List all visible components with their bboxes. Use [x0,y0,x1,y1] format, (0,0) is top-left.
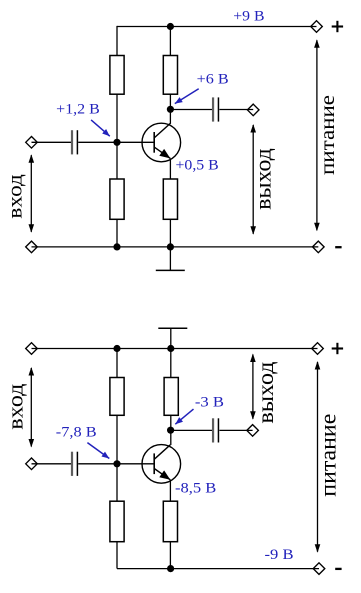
capacitor C2 (output coupling, top circuit) [213,97,218,121]
wire top +9V rail (top circuit) [117,26,317,28]
dimension arrow выход (bottom circuit) [250,354,256,420]
wire base node to R6 [116,464,118,501]
svg-text:вход: вход [2,174,26,219]
terminal top-left (diamond, bottom circuit) [26,343,38,355]
label + (supply polarity, top circuit) [332,21,343,32]
node base divider junction (bottom circuit) [113,460,120,467]
pointer arrow -3 В to collector node (bottom circuit) [175,409,193,424]
wire bottom 0V rail (top circuit) [32,246,319,248]
capacitor C4 (output coupling, bottom circuit) [213,418,218,442]
dimension arrow вход (bottom circuit) [29,367,35,448]
wire left bias column (rail to R5) [116,349,118,378]
terminal input (diamond, top circuit) [26,137,38,149]
wire emitter to R4 [169,158,171,179]
dimension arrow питание (bottom circuit) [315,361,321,553]
pointer arrow +1,2 В to base node [91,120,110,136]
svg-text:питание: питание [316,414,342,497]
wire R7 to collector (bottom circuit) [170,415,172,445]
wire emitter to R8 (bottom circuit) [169,480,171,501]
wire collector resistor column (rail to R3) [169,27,171,56]
label + (supply polarity, bottom circuit) [332,343,343,354]
transistor Q1 (NPN common-emitter) [142,123,181,162]
node base divider junction (top circuit) [113,139,120,146]
wire R8 to bottom rail (bottom circuit) [169,542,171,569]
svg-text:+9 В: +9 В [233,9,264,25]
svg-text:выход: выход [253,361,278,423]
terminal output (diamond, top circuit) [247,104,259,116]
node R2 to bottom rail junction [113,243,120,250]
resistor R4 (emitter, top circuit) [163,179,177,219]
node emitter column to bottom rail junction [167,243,174,250]
node junction: left column to top rail (bottom circuit) [113,345,120,352]
wire top rail (bottom circuit) [32,348,318,350]
svg-text:-8,5 В: -8,5 В [175,480,216,496]
node collector / output junction (top circuit) [167,106,174,113]
wire R6 to bottom rail corner (bottom circuit) [116,542,118,569]
pointer arrow -7,8 В to base node (bottom circuit) [87,443,109,459]
wire collector node to output cap (bottom circuit) [170,429,212,431]
resistor R8 (emitter, bottom circuit) [163,501,177,542]
terminal output (diamond, bottom circuit) [247,425,259,437]
svg-text:питание: питание [315,95,339,175]
wire R1 to base node [116,94,118,142]
capacitor C3 (input coupling, bottom circuit) [72,452,77,476]
capacitor C1 (input coupling, top circuit) [72,130,77,154]
svg-text:+0,5 В: +0,5 В [176,158,219,174]
terminal +9V supply (diamond, top circuit) [311,21,323,33]
svg-text:+1,2 В: +1,2 В [56,102,100,118]
wire cap C1 to base [78,141,154,143]
resistor R1 (upper bias, top circuit) [110,56,124,95]
node center column to bottom rail junction (bottom circuit) [167,565,174,572]
svg-text:-7,8 В: -7,8 В [56,425,97,441]
wire cap C3 to base (bottom circuit) [78,463,154,465]
wire left bias divider column (rail to R1) [116,26,118,56]
ground symbol (bottom circuit) [158,328,187,348]
wire input terminal to coupling cap (bottom circuit) [32,463,72,465]
terminal input (diamond, bottom circuit) [26,458,38,470]
svg-text:вход: вход [2,384,27,430]
svg-text:выход: выход [250,148,275,210]
wire input terminal to coupling cap [32,141,72,143]
label - (supply polarity, bottom circuit) [335,568,341,570]
wire cap C2 to output terminal [219,109,253,111]
dimension arrow выход (top circuit) [250,124,256,235]
wire base node to R2 [116,142,118,179]
dimension arrow вход (top circuit) [29,154,35,233]
terminal bottom-left (diamond, top circuit) [26,241,38,253]
wire R4 to ground rail [169,219,171,247]
dimension arrow питание (top circuit) [314,39,320,231]
svg-text:-9 В: -9 В [265,547,294,563]
svg-text:-3 В: -3 В [195,394,224,410]
resistor R5 (upper bias, bottom circuit) [110,378,124,416]
transistor Q2 (bottom circuit) [142,445,181,484]
wire center column (rail to R7) [170,349,172,378]
wire R3 to collector [169,94,171,124]
resistor R2 (lower bias, top circuit) [110,179,124,219]
ground symbol (top circuit) [156,247,185,271]
resistor R3 (collector load, top circuit) [163,56,177,95]
terminal +, supply (diamond, bottom circuit) [312,343,324,355]
wire collector node to output cap [170,109,212,111]
label - (supply polarity, top circuit) [335,246,341,248]
resistor R7 (collector load, bottom circuit) [164,378,178,416]
svg-text:+6 В: +6 В [197,72,229,88]
wire R2 to ground rail [116,219,118,247]
wire cap C4 to output terminal (bottom circuit) [219,429,252,431]
node junction: center column to top rail (bottom circuit) [167,345,174,352]
wire bottom -9V rail (bottom circuit) [117,568,319,570]
terminal -, supply return (diamond, top circuit) [313,241,325,253]
node junction: collector resistor to +9V rail [167,23,174,30]
node collector / output junction (bottom circuit) [167,427,174,434]
resistor R6 (lower bias, bottom circuit) [110,501,124,542]
pointer arrow +6 В to collector node [175,89,199,104]
wire R5 to base node (bottom circuit) [116,415,118,464]
terminal -, supply (diamond, bottom circuit) [313,563,325,575]
